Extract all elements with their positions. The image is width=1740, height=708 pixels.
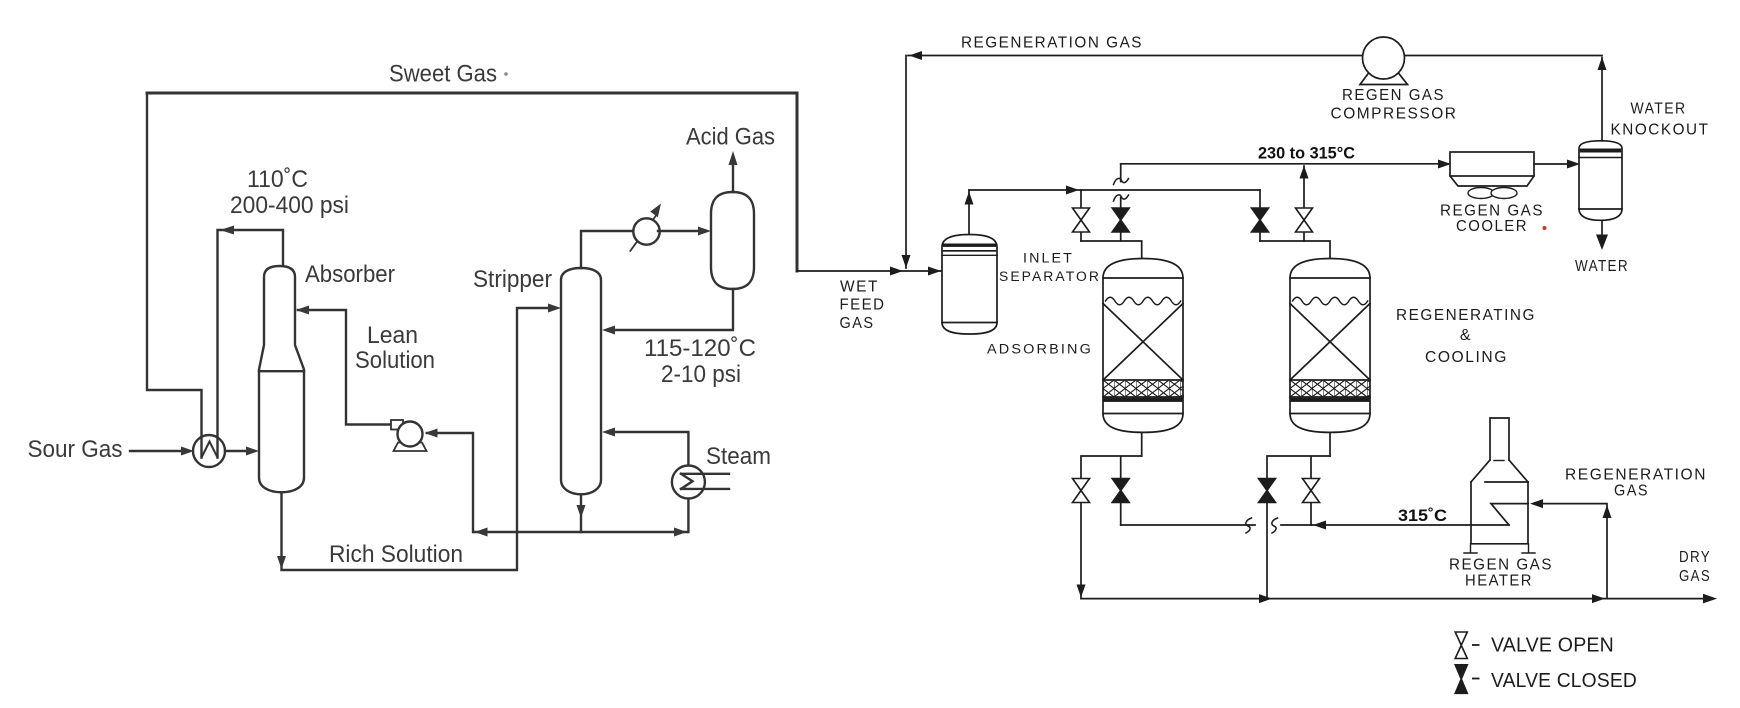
arrow: cooler outlet into knockout [1567,160,1580,169]
svg-text:REGENERATION: REGENERATION [1565,467,1707,484]
wire: acid gas overhead [732,165,734,192]
regen gas heater body [1471,482,1528,544]
arrow: reflux into stripper [602,326,615,335]
arrow: line A into cooler [1438,160,1451,169]
arrow: acid gas up [729,151,738,165]
valve V6 (closed) [1112,479,1129,503]
wire: tower T1 bottom outlet [1141,432,1143,456]
wire: feed manifold line B [969,189,1260,191]
condenser (cooler) circle [633,218,659,244]
wire: valve V7 down to dry gas header [1266,503,1268,599]
svg-text:DRY: DRY [1679,549,1711,566]
stripper column [561,268,601,494]
wire: steam lines forming sigma [681,474,729,489]
wire: wet feed gas into separator [797,270,942,272]
pump P1 casing tab [391,420,403,430]
wire: sweet gas left downcomer to exchanger [147,93,202,458]
svg-text:INLET: INLET [1023,251,1074,266]
tower T1 support mesh band [1103,380,1183,397]
arrow: vapor return into stripper [602,428,615,437]
regen gas heater coil [1491,504,1528,525]
svg-text:Steam: Steam [706,443,771,470]
wire: stripper bottoms header [474,531,688,533]
svg-text:REGENERATING: REGENERATING [1396,307,1536,324]
wire: reboiler vapor return [615,432,688,466]
valve V1 (open) [1073,208,1090,232]
arrow: separator riser up [965,192,974,205]
wire: line A downcomer to valve V2 with breaks [1120,164,1122,208]
wire: 315C regeneration gas supply line with breaks [1121,524,1509,526]
regen gas compressor [1363,37,1405,79]
wire: sweet gas overhead line (thick) [147,93,797,271]
arrow: header flow right at V7 junction [1259,594,1272,603]
arrow: water outlet down [1596,235,1608,251]
svg-text:SEPARATOR: SEPARATOR [999,269,1101,284]
svg-text:200-400 psi: 200-400 psi [230,192,349,219]
arrow: dry gas line end [1703,594,1717,604]
svg-text:HEATER: HEATER [1465,573,1533,590]
svg-text:KNOCKOUT: KNOCKOUT [1611,122,1710,139]
wire: reflux from accumulator to stripper [615,289,733,330]
wire: valve V3 top stub [1259,190,1261,208]
svg-text:VALVE CLOSED: VALVE CLOSED [1491,670,1637,692]
arrow: condenser diagonal tip [650,204,661,218]
svg-text:REGEN GAS: REGEN GAS [1449,557,1553,574]
text labels left section [28,61,776,569]
svg-text:WET: WET [840,279,879,296]
svg-text:COOLER: COOLER [1456,218,1528,235]
svg-text:GAS: GAS [840,315,875,332]
wire: cooler outlet to knockout [1534,163,1568,165]
tower T1 X packing [1103,304,1183,381]
label: legend VALVE CLOSED [1472,678,1480,680]
valve V3 (closed) [1252,208,1269,232]
svg-text:COOLING: COOLING [1425,349,1508,366]
absorber column [259,266,304,492]
wire: knockout water outlet [1601,220,1603,236]
arrow: stripper bottom outlet down [577,505,586,518]
adsorber tower T2 (regenerating) shell [1290,259,1370,433]
svg-text:Solution: Solution [355,347,435,374]
wire: valve V6 down to 315C line [1120,503,1122,526]
wire: tower1 top manifold [1081,241,1142,259]
svg-text:230 to 315°C: 230 to 315°C [1258,144,1355,163]
tower T2 support mesh band [1290,380,1370,397]
valve V2 (closed) [1112,208,1129,232]
wire: absorber overhead to exchanger (110C line) [220,230,284,266]
break squiggle right [1272,518,1278,533]
svg-text:Lean: Lean [367,322,418,349]
svg-text:Acid Gas: Acid Gas [686,124,775,151]
tower T1 bed level wavy line [1106,297,1181,305]
wire: regeneration gas riser from header to heater [1542,504,1607,599]
pump P1 [398,422,423,447]
break squiggle upper [1114,178,1129,184]
svg-text:Sweet Gas: Sweet Gas [389,61,497,88]
wire: rich solution from absorber bottom [282,308,550,570]
regen gas heater legs [1464,544,1535,553]
svg-text:VALVE OPEN: VALVE OPEN [1491,635,1614,657]
reboiler (steam heated) [672,466,705,499]
svg-text:Sour Gas: Sour Gas [28,436,123,463]
wire: valve V5 down to dry gas header [1080,503,1082,599]
svg-text:REGEN GAS: REGEN GAS [1440,203,1544,220]
svg-text:WATER: WATER [1575,258,1629,275]
arrow: into accumulator [698,227,711,236]
valves [1073,208,1468,693]
arrow: header flow right before regen riser [1592,594,1605,603]
wire: separator overhead riser [968,190,970,234]
break squiggle left [1246,518,1252,533]
wire: exchanger to absorber [225,450,248,452]
separator demister band [943,244,996,247]
arrow: regen gas into heater [1530,499,1543,508]
text labels right section [840,35,1712,693]
regen gas compressor base [1360,73,1408,85]
wire: stripper overhead to condenser [581,231,632,268]
arrow: knockout riser up to regen line [1598,57,1607,70]
wire: sour gas inlet [130,450,182,452]
arrow: 315C flow left at V8 junction [1313,521,1326,530]
tower T2 bed level wavy line [1293,297,1368,305]
svg-text:&: & [1460,327,1472,344]
svg-text:REGEN GAS: REGEN GAS [1342,87,1445,104]
legend valve open symbol [1455,632,1467,659]
svg-text:2-10 psi: 2-10 psi [661,361,741,388]
black bands on vessels [943,149,1621,252]
valve V5 (open) [1073,479,1090,503]
wire: valve bottom stubs top row [1081,232,1304,241]
svg-text:315˚C: 315˚C [1398,506,1447,525]
wire: reboiler riser [687,499,689,533]
wire: regen gas downcomer to feed [905,56,907,269]
legend valve closed symbol [1455,665,1467,694]
svg-text:Rich Solution: Rich Solution [329,541,463,568]
valve V7 (closed) [1259,479,1276,503]
condenser diagonal arrow [630,214,657,251]
inlet separator vessel [942,235,997,335]
svg-text:REGENERATION GAS: REGENERATION GAS [961,35,1143,52]
wire: tower2 top manifold [1260,241,1330,259]
break squiggle lower [1114,195,1129,201]
arrow: exchanger outlet into absorber [246,447,259,456]
svg-text:115-120˚C: 115-120˚C [644,335,756,362]
arrow: lean solution into absorber [296,306,309,315]
arrow: bottoms to pump riser [475,528,488,537]
svg-text:Stripper: Stripper [473,266,552,293]
wire: condenser to acid-gas accumulator [658,230,699,232]
wire: regeneration gas return line [908,55,1602,57]
arrow: line B flow right [1066,186,1079,195]
arrow: wet feed gas flow [890,267,903,276]
arrowheads left section [181,151,738,569]
arrow: into pump suction [425,429,438,438]
svg-text:GAS: GAS [1614,483,1649,500]
wire: knockout overhead riser to regen line [1601,58,1603,141]
wire: valve V4 riser to line A [1303,166,1305,208]
svg-text:GAS: GAS [1679,568,1711,585]
valve V4 (open) [1296,208,1313,232]
water knockout vessel [1579,141,1622,221]
heat exchanger E1 (sour/sweet gas exchanger) [193,435,225,467]
arrow: rich solution down from absorber [277,556,286,569]
svg-text:COMPRESSOR: COMPRESSOR [1331,106,1458,123]
wire: valve V1 top stub [1080,190,1082,208]
regen gas heater shoulders [1471,460,1528,482]
wire: dry gas header [1081,598,1704,600]
arrow: 110C line turning down [220,226,234,235]
wire: tower T2 bottom manifold [1267,456,1330,479]
svg-text:WATER: WATER [1631,101,1687,118]
wire: tower T1 bottom manifold [1081,456,1142,479]
regen gas heater stack [1490,418,1509,460]
arrow: regen downcomer into feed [902,255,911,268]
arrow: V5 line down to header [1077,585,1086,598]
label: legend VALVE OPEN [1472,644,1480,646]
adsorber tower T1 (adsorbing) shell [1103,259,1183,433]
pump P1 base [394,443,427,452]
wire: lean solution into absorber [298,310,392,425]
regen gas cooler fans [1468,188,1494,199]
svg-text:FEED: FEED [840,297,886,314]
wire: pump suction from stripper bottoms [427,433,473,532]
svg-text:110˚C: 110˚C [247,166,308,193]
svg-text:ADSORBING: ADSORBING [987,342,1093,357]
arrow: wet feed into separator [928,267,941,276]
arrow: bottoms into reboiler riser [674,528,687,537]
tower T2 X packing [1290,304,1370,381]
knockout demister band [1580,149,1621,153]
arrow: V4 riser into line A [1300,166,1309,179]
wire: 230-315C line A [1121,163,1450,165]
svg-text:Absorber: Absorber [305,261,395,288]
arrow: regen riser up [1603,505,1612,518]
arrow: rich solution into stripper [548,304,561,313]
valve V8 (open) [1303,479,1320,503]
wire: valve V8 down to 315C line [1310,503,1312,526]
arrowheads right section [890,51,1717,603]
arrow: regen gas line turning down [909,51,922,60]
regen gas cooler body [1450,152,1534,176]
arrow: sour gas into exchanger [181,447,194,456]
acid gas accumulator vessel [711,192,754,289]
wire: stripper bottom outlet [580,494,582,532]
wire: tower T2 bottom outlet [1329,432,1331,456]
